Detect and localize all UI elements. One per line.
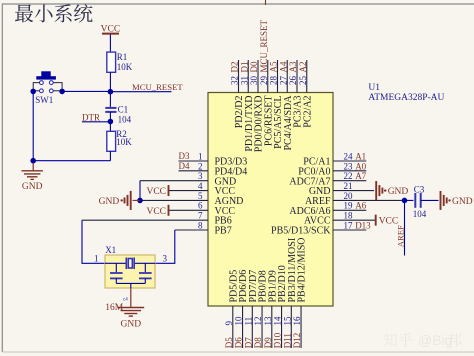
ground (earth) under SW1 xyxy=(32,161,34,164)
wire MCU_RESET xyxy=(110,91,171,93)
svg-text:29: 29 xyxy=(259,76,269,86)
svg-text:MCU_RESET: MCU_RESET xyxy=(132,82,183,92)
svg-text:23: 23 xyxy=(344,161,354,171)
top pins 32..25 xyxy=(238,60,240,93)
power gnd (bar) left xyxy=(125,191,131,210)
svg-text:PC2/A2: PC2/A2 xyxy=(302,96,313,128)
svg-text:VCC: VCC xyxy=(146,207,166,217)
svg-text:D8: D8 xyxy=(253,337,263,348)
svg-text:GND: GND xyxy=(99,197,120,207)
svg-text:C1: C1 xyxy=(118,105,129,115)
svg-text:D12: D12 xyxy=(292,333,302,349)
svg-text:A3: A3 xyxy=(288,61,298,72)
wire DTR stub xyxy=(82,121,110,123)
svg-text:c4: c4 xyxy=(123,298,128,303)
svg-text:11: 11 xyxy=(243,317,253,326)
svg-text:D1: D1 xyxy=(239,62,249,73)
svg-text:16: 16 xyxy=(292,316,302,326)
node AREF junction xyxy=(402,198,408,204)
svg-text:21: 21 xyxy=(344,181,353,191)
svg-text:D9: D9 xyxy=(263,337,273,348)
svg-text:VCC: VCC xyxy=(146,187,166,197)
svg-text:VCC: VCC xyxy=(101,24,121,34)
wire X1 to ground xyxy=(130,288,132,307)
svg-text:27: 27 xyxy=(278,76,288,86)
resistor R1 xyxy=(107,52,116,72)
pin3 GND wire xyxy=(140,180,208,182)
svg-text:17: 17 xyxy=(344,220,354,230)
switch SW1 xyxy=(41,71,50,76)
svg-text:12: 12 xyxy=(253,317,263,326)
title 最小系统 xyxy=(15,5,33,23)
svg-text:10K: 10K xyxy=(116,137,132,147)
svg-text:D5: D5 xyxy=(224,337,234,348)
svg-text:D2: D2 xyxy=(230,62,240,73)
node DTR junction xyxy=(108,119,114,125)
wire R1 to reset node xyxy=(109,72,111,91)
svg-text:24: 24 xyxy=(344,151,354,161)
capacitor right (in X1) xyxy=(144,263,146,272)
right pins 24..17 xyxy=(333,160,366,162)
ground (earth) under X1 xyxy=(117,308,144,317)
svg-text:DTR: DTR xyxy=(82,113,100,123)
svg-text:SW1: SW1 xyxy=(35,95,53,105)
svg-text:D13: D13 xyxy=(355,220,371,230)
crystal module X1 xyxy=(105,255,155,288)
wire gnd L xyxy=(139,181,141,201)
pin8 PB7 wire to crystal xyxy=(175,229,208,231)
svg-text:@Big: @Big xyxy=(418,332,452,348)
svg-text:GND: GND xyxy=(388,187,409,197)
svg-text:15: 15 xyxy=(282,316,292,326)
svg-text:ATMEGA328P-AU: ATMEGA328P-AU xyxy=(368,93,444,103)
svg-text:GND: GND xyxy=(22,182,43,192)
wire PB7 down to X1 xyxy=(155,230,175,263)
svg-text:10K: 10K xyxy=(117,62,133,72)
svg-text:25: 25 xyxy=(298,76,308,86)
svg-text:8: 8 xyxy=(198,220,203,230)
svg-text:A2: A2 xyxy=(298,62,308,73)
svg-text:D0: D0 xyxy=(249,61,259,72)
svg-text:10: 10 xyxy=(234,316,244,326)
svg-text:GND: GND xyxy=(452,197,473,207)
pin4 VCC stub xyxy=(169,190,209,192)
crystal symbol xyxy=(105,262,126,264)
svg-text:6: 6 xyxy=(198,201,203,211)
resistor R2 xyxy=(109,122,111,132)
wires caps to common xyxy=(115,278,117,283)
svg-text:28: 28 xyxy=(269,76,279,86)
svg-text:AREF: AREF xyxy=(396,225,406,247)
capacitor C3 xyxy=(405,199,414,201)
svg-text:1: 1 xyxy=(94,254,99,264)
svg-text:9: 9 xyxy=(224,321,234,326)
wire PB6 down to X1 xyxy=(82,220,105,263)
svg-text:13: 13 xyxy=(263,316,273,326)
svg-text:19: 19 xyxy=(344,201,354,211)
power gnd after C3 xyxy=(441,191,447,210)
svg-text:26: 26 xyxy=(288,76,298,86)
watermark xyxy=(384,333,398,347)
svg-text:PB4/D12/MISO: PB4/D12/MISO xyxy=(297,237,308,302)
svg-text:PB7: PB7 xyxy=(215,226,232,237)
svg-text:4: 4 xyxy=(198,181,203,191)
svg-text:A5: A5 xyxy=(269,61,279,72)
svg-text:32: 32 xyxy=(230,76,240,85)
pin6 VCC stub xyxy=(169,209,209,211)
svg-text:X1: X1 xyxy=(105,245,116,255)
svg-text:5: 5 xyxy=(198,191,203,201)
svg-text:1: 1 xyxy=(198,151,203,161)
wire R2 to gnd rail xyxy=(109,151,111,160)
capacitor C1 xyxy=(109,92,111,107)
power VCC pin18 xyxy=(375,215,377,226)
svg-text:C3: C3 xyxy=(414,184,425,194)
node MCU_RESET junction xyxy=(108,89,114,95)
svg-text:D3: D3 xyxy=(179,151,190,161)
op IC body U1 xyxy=(208,93,333,307)
tick at top border (clipped MCU_RESET) xyxy=(265,0,267,5)
svg-text:14: 14 xyxy=(273,316,283,326)
svg-text:PB5/D13/SCK: PB5/D13/SCK xyxy=(271,226,331,237)
svg-text:A0: A0 xyxy=(355,161,366,171)
svg-text:30: 30 xyxy=(249,76,259,86)
wire AREF down xyxy=(404,200,406,255)
svg-text:A4: A4 xyxy=(278,61,288,72)
pin7 PB6 wire to crystal xyxy=(82,219,208,221)
svg-text:R1: R1 xyxy=(117,52,128,62)
svg-text:2: 2 xyxy=(198,161,203,171)
svg-text:D4: D4 xyxy=(179,161,190,171)
svg-text:D6: D6 xyxy=(234,337,244,348)
power gnd pin21 xyxy=(376,181,382,200)
svg-text:22: 22 xyxy=(344,171,353,181)
svg-text:7: 7 xyxy=(198,211,203,221)
svg-text:U1: U1 xyxy=(368,83,380,93)
svg-text:20: 20 xyxy=(344,191,354,201)
svg-text:MCU_RESET: MCU_RESET xyxy=(259,19,269,72)
svg-text:104: 104 xyxy=(413,209,427,219)
svg-text:18: 18 xyxy=(344,211,354,221)
svg-text:3: 3 xyxy=(198,171,203,181)
bottom pins 9..16 xyxy=(232,306,234,348)
svg-text:D11: D11 xyxy=(282,333,292,348)
svg-text:A6: A6 xyxy=(355,201,366,211)
svg-text:GND: GND xyxy=(121,320,142,330)
svg-text:104: 104 xyxy=(118,114,132,124)
svg-text:3: 3 xyxy=(163,254,168,264)
svg-text:D7: D7 xyxy=(243,337,253,348)
svg-text:A7: A7 xyxy=(355,171,366,181)
svg-text:D10: D10 xyxy=(273,332,283,348)
wire SW1 left rail down xyxy=(32,91,34,160)
pin5 AGND wire xyxy=(140,199,208,201)
capacitor left (in X1) xyxy=(115,263,117,272)
node gnd rail junction xyxy=(30,158,36,164)
wire SW1 to reset node xyxy=(62,90,110,92)
power VCC (top) xyxy=(109,34,111,52)
svg-text:31: 31 xyxy=(239,76,249,85)
svg-text:A1: A1 xyxy=(355,151,366,161)
